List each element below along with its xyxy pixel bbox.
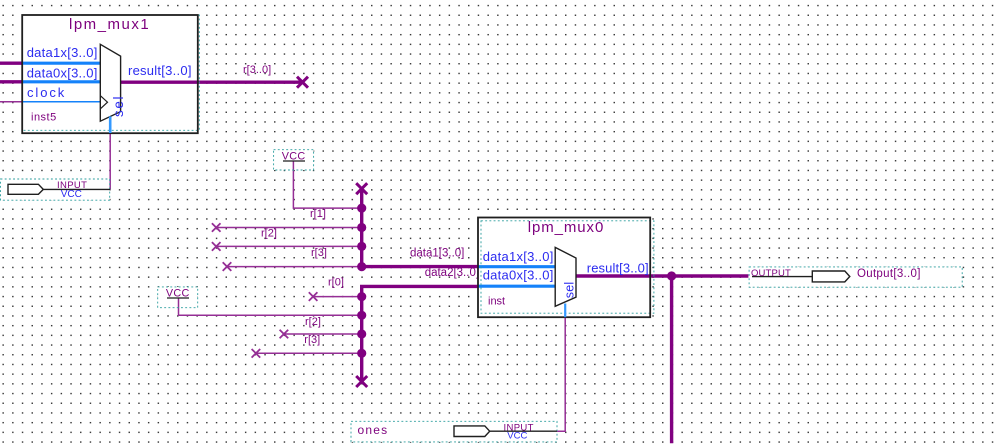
svg-text:result[3..0]: result[3..0] xyxy=(128,63,192,78)
svg-text:data1[3..0]: data1[3..0] xyxy=(410,248,464,260)
svg-text:data1x[3..0]: data1x[3..0] xyxy=(27,45,98,60)
svg-text:data0x[3..0]: data0x[3..0] xyxy=(483,268,554,283)
svg-text:OUTPUT: OUTPUT xyxy=(751,268,791,279)
svg-text:r[3..0]: r[3..0] xyxy=(243,64,271,76)
svg-text:sel: sel xyxy=(111,95,126,117)
svg-text:r[3]: r[3] xyxy=(311,247,327,259)
svg-text:r[2]: r[2] xyxy=(305,316,321,328)
svg-text:lpm_mux1: lpm_mux1 xyxy=(69,16,150,33)
svg-text:r[0]: r[0] xyxy=(328,277,344,289)
svg-text:VCC: VCC xyxy=(507,431,527,442)
svg-text:r[3]: r[3] xyxy=(304,334,320,346)
svg-text:clock: clock xyxy=(27,85,66,100)
svg-text:r[1]: r[1] xyxy=(310,208,326,220)
svg-text:sel: sel xyxy=(562,282,576,299)
svg-text:VCC: VCC xyxy=(61,189,82,200)
svg-text:result[3..0]: result[3..0] xyxy=(587,260,649,275)
svg-text:data2[3..0]: data2[3..0] xyxy=(425,267,479,279)
svg-text:data0x[3..0]: data0x[3..0] xyxy=(27,65,98,80)
svg-text:r[2]: r[2] xyxy=(261,228,277,240)
svg-text:ones: ones xyxy=(358,423,389,437)
svg-text:inst5: inst5 xyxy=(31,112,57,124)
svg-text:Output[3..0]: Output[3..0] xyxy=(857,268,921,280)
svg-text:data1x[3..0]: data1x[3..0] xyxy=(483,249,554,264)
svg-text:lpm_mux0: lpm_mux0 xyxy=(528,219,604,236)
svg-text:inst: inst xyxy=(488,296,505,308)
